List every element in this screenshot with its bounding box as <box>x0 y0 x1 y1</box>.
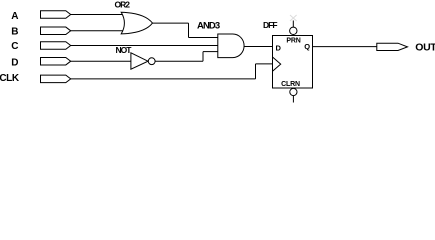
svg-text:CLK: CLK <box>0 73 20 84</box>
wire A to OR2 <box>71 14 127 16</box>
DFF PRN bubble <box>290 27 297 34</box>
wire CLK horizontal <box>71 78 256 80</box>
wire D to NOT <box>71 60 131 62</box>
wire DFF Q output to OUT pin <box>313 46 377 48</box>
svg-text:DFF: DFF <box>263 20 277 30</box>
not-gate NOT bubble <box>148 58 155 65</box>
wire NOT output horizontal <box>155 60 203 62</box>
flip-flop DFF body <box>273 36 313 89</box>
wire CLK vertical riser <box>255 64 257 79</box>
input pin A <box>41 11 71 19</box>
wire NOT output vertical riser <box>202 52 204 62</box>
or-gate OR2 <box>121 12 152 34</box>
svg-text:AND3: AND3 <box>197 21 220 32</box>
wire AND3 output to DFF D input <box>244 46 273 48</box>
DFF PRN nc cross <box>290 15 297 21</box>
wire into AND3 bottom input <box>203 51 218 53</box>
wire C to AND3 middle input <box>71 45 218 47</box>
and-gate AND3 <box>218 34 244 58</box>
DFF CLRN stub <box>292 96 294 103</box>
svg-text:C: C <box>11 41 18 52</box>
svg-text:A: A <box>11 11 18 22</box>
svg-text:CLRN: CLRN <box>281 81 300 88</box>
wire into AND3 top input <box>189 37 218 39</box>
output pin OUT <box>377 43 408 50</box>
DFF clock triangle <box>273 57 281 71</box>
wire B to OR2 <box>71 30 127 32</box>
svg-text:PRN: PRN <box>286 37 300 44</box>
input pin B <box>41 27 71 35</box>
wire CLK into DFF clock <box>256 63 273 65</box>
svg-text:B: B <box>11 26 18 37</box>
wire OR2 output horizontal <box>153 22 189 24</box>
input pin C <box>41 42 71 50</box>
DFF CLRN bubble <box>290 88 297 95</box>
DFF PRN stub <box>292 21 294 28</box>
svg-text:OR2: OR2 <box>115 0 131 9</box>
not-gate NOT triangle <box>131 53 148 69</box>
svg-text:OUT: OUT <box>415 42 435 54</box>
input pin D <box>41 57 71 64</box>
wire OR2 output vertical drop <box>188 23 190 37</box>
svg-text:D: D <box>276 43 282 52</box>
input pin CLK <box>41 75 71 83</box>
svg-text:NOT: NOT <box>116 45 133 55</box>
svg-text:D: D <box>11 58 18 69</box>
svg-text:Q: Q <box>304 42 310 51</box>
